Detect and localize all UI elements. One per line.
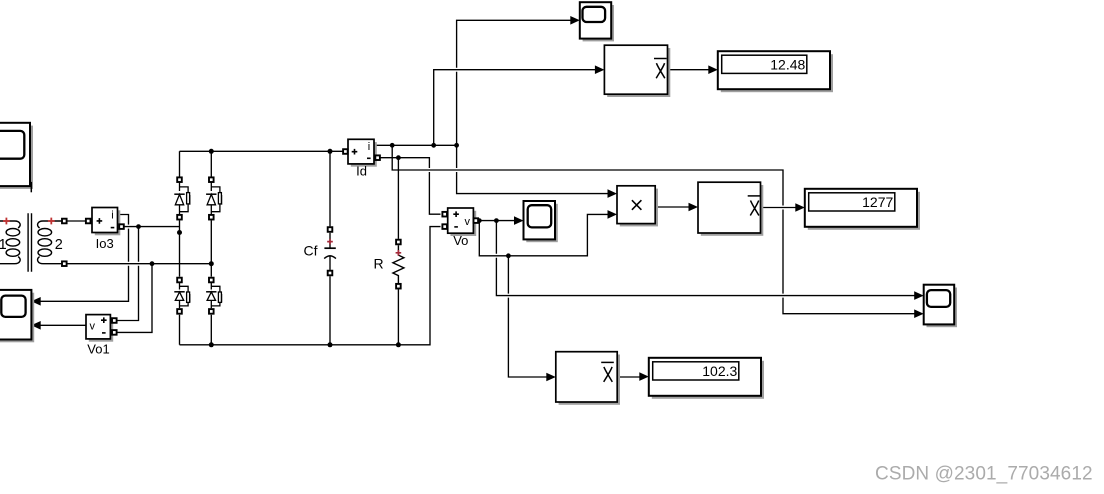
svg-text:Id: Id [356,164,367,179]
node i-rail tap3 [454,143,459,148]
port Cf bottom [328,271,333,276]
svg-text:102.3: 102.3 [702,363,737,379]
mean block Mean3 [556,352,620,405]
wire Id i up to Mean1 input [434,70,599,146]
port Io3 - [119,224,124,229]
port D3 bottom [177,309,182,314]
svg-text:i: i [111,210,113,222]
wire Id - to Vo + [381,158,441,215]
wire winding2 bottom rail to bridge node B [67,263,212,265]
node i-rail tap2 [431,143,436,148]
diode D4 (bottom-right) [206,283,221,308]
svg-text:1277: 1277 [862,194,893,210]
svg-text:R: R [373,256,383,272]
node A column junction [177,230,182,235]
mean block Mean2 [698,182,763,236]
arrow into right scope input1 [914,291,924,300]
arrow into Mean2 [689,203,699,212]
diode D2 (top-right) [206,183,221,215]
electrical port squares [62,149,478,335]
port Vo1 - [112,330,117,335]
arrow into Mean1 [595,65,605,74]
wire Io3 - to bridge node A [124,226,180,228]
wire Id i up to top scope input [457,20,575,145]
wire left bridge column [179,151,181,344]
wire Vo1 v output to left scope input2 [36,324,86,326]
wire Mean1 output to Display1 [668,69,713,71]
svg-text:2: 2 [55,237,63,253]
port D3 top [177,278,182,283]
diode D3 (bottom-left) [174,283,189,308]
arrowheads [31,16,924,381]
transformer winding 2 polarity + [48,218,55,225]
arrow into Display1 [708,65,718,74]
port D4 bottom [209,309,214,314]
display Display3 value 102.3 [649,358,764,399]
wire Id i down to long feed to right scope input2 [392,145,918,313]
arrow into left scope input1 [31,297,41,306]
port Vo - [442,224,447,229]
node Vo-out tap2 [494,218,499,223]
mean block Mean1 [604,45,670,97]
port D2 bottom [209,215,214,220]
node Vo-out tap1 [477,218,482,223]
node B rail junction [150,261,155,266]
node Io3-minus junction [136,224,141,229]
wire Cf branch vertical [329,151,331,344]
port Vo + [442,212,447,217]
wire bottom rail [180,227,441,345]
junction dots [136,143,511,347]
port D1 bottom [177,215,182,220]
current measurement Id [348,139,377,166]
node bottom rail R tap [396,342,401,347]
port D4 top [209,278,214,283]
svg-text:v: v [465,216,471,228]
node Id-minus R tap [396,155,401,160]
arrow into Product in1 [608,189,618,198]
wire top DC rail to Id + [180,150,343,152]
svg-text:Cf: Cf [304,243,318,259]
svg-text:Vo1: Vo1 [87,342,109,357]
svg-text:i: i [368,141,370,153]
node Vo-out tap3 [506,253,511,258]
arrow into left scope input2 [31,321,41,330]
port Id - [375,155,380,160]
arrow into Display3 [639,372,649,381]
node top rail Cf tap [328,149,333,154]
wire Io3 i output down to left scope input1 [36,215,129,302]
node bottom rail Cf tap [328,342,333,347]
svg-text:Vo: Vo [453,233,468,248]
wire node B down to Vo1 - [117,264,153,333]
node bottom rail right column [209,342,214,347]
svg-text:v: v [90,321,96,333]
port R top [396,240,401,245]
svg-text:CSDN @2301_77034612: CSDN @2301_77034612 [875,464,1093,485]
display Display2 value 1277 [805,189,920,230]
wire Id i down to Product input1 [457,145,612,193]
port winding2 bottom [62,261,67,266]
port Io3 + [86,219,91,224]
scope Scope1 (bottom-left, clipped, 2 inputs) [0,290,34,342]
port Id + [343,149,348,154]
svg-text:Io3: Io3 [96,236,114,251]
wire winding2 top to Io3 + [67,220,86,222]
transformer T1 core [28,213,31,271]
arrow into right scope input2 [914,309,924,318]
arrow into Display2 [795,203,805,212]
capacitor Cf element [324,233,336,270]
port Cf top [328,227,333,232]
port Vo v out [474,218,479,223]
voltage measurement Vo [448,208,477,236]
scope Scope2 (middle) [524,201,558,242]
scope Scope4 (top-left, clipped) [0,123,33,193]
svg-text:1: 1 [0,237,7,253]
wire node A down to Vo1 + [117,227,139,321]
product block (x) [617,186,658,227]
arrow into mid scope [514,216,524,225]
scope Scope3 (bottom-right, 2 inputs) [924,285,957,328]
transformer winding 1 polarity + [3,218,10,225]
arrow into Product in2 [608,210,618,219]
wire Vo v output to mid scope [477,220,518,222]
wire right bridge column [210,151,212,344]
wire Mean3 output to Display3 [617,376,643,378]
node i-rail tap1 [390,143,395,148]
wire Id i output rail [374,144,457,146]
transformer winding 2 (secondary) [38,221,64,264]
transformer winding 1 (primary) [0,221,20,264]
port R bottom [396,284,401,289]
port winding2 top [62,219,67,224]
wire Mean2 output to Display2 [761,207,800,209]
wire Vo v down to Product input2 [479,214,611,255]
arrow into top scope [570,16,580,25]
node B column junction [209,261,214,266]
arrow into Mean3 [546,373,556,382]
scope Scope (top) [580,2,614,41]
current measurement Io3 [92,208,120,236]
wire Vo v down to right scope input1 [496,221,918,296]
voltage measurement Vo1 (mirrored) [86,315,113,342]
display Display1 value 12.48 [718,51,833,92]
port Vo1 + [112,318,117,323]
wire Vo v down to Mean3 input [508,256,550,377]
wire R branch vertical [397,158,399,345]
port D2 top [209,177,214,182]
node top rail right column [209,149,214,154]
svg-text:12.48: 12.48 [770,56,805,72]
diode D1 (top-left) [174,183,189,215]
wire Product output to Mean2 [655,206,692,208]
resistor R element [393,245,404,283]
port D1 top [177,177,182,182]
